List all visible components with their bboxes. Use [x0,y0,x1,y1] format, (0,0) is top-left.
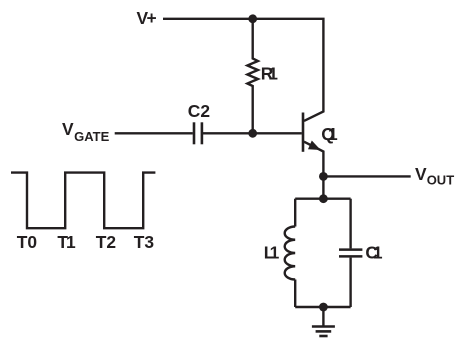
svg-text:OUT: OUT [427,173,455,188]
svg-text:T1: T1 [57,232,76,252]
svg-text:T2: T2 [96,232,116,252]
svg-text:V: V [415,164,427,184]
svg-text:V+: V+ [137,8,157,28]
svg-text:T3: T3 [134,232,155,252]
svg-text:C2: C2 [188,101,210,121]
svg-text:V: V [62,119,74,139]
svg-text:GATE: GATE [74,129,109,144]
svg-text:R1: R1 [261,64,278,84]
svg-text:L1: L1 [264,243,280,263]
svg-text:T0: T0 [17,232,37,252]
svg-text:C1: C1 [365,243,383,263]
svg-text:Q1: Q1 [321,124,338,144]
